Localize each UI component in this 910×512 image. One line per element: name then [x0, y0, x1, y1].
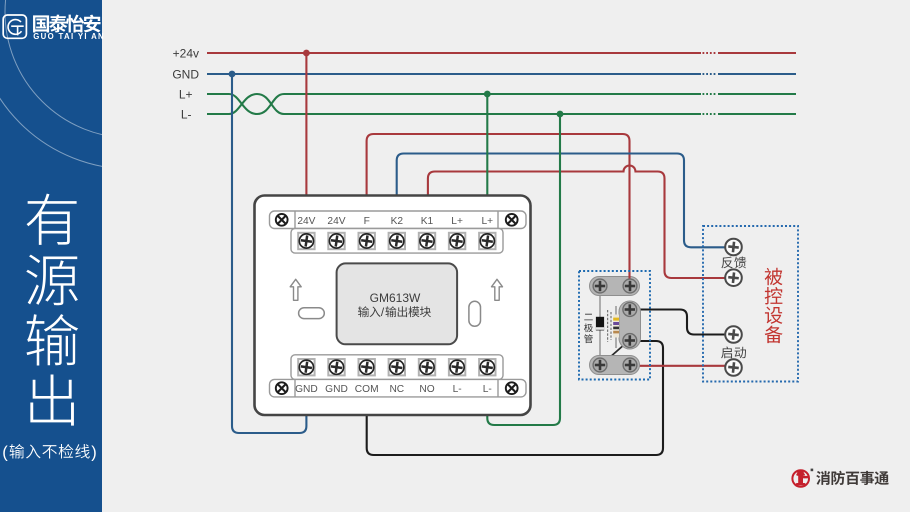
bottom terminal pill [590, 356, 640, 375]
relay screw upper [623, 303, 637, 317]
resistor 4.7K body with bands [613, 315, 619, 338]
wire module K1 terminal to device feedback lower screw (hop over F wire) [428, 166, 725, 279]
svg-text:24V: 24V [297, 216, 315, 227]
svg-text:(: ( [2, 443, 8, 461]
diode box screw top-left [593, 279, 607, 293]
diode component dashed box [579, 271, 650, 380]
right pill cutout [469, 301, 481, 326]
svg-text:GND: GND [325, 384, 348, 395]
label 反馈 [721, 257, 746, 269]
diode body [596, 317, 604, 331]
svg-text:F: F [364, 216, 370, 227]
tiny annotation column (4.7K) [608, 310, 611, 342]
terminal screw 24V (2) [328, 233, 344, 249]
svg-text:GUO TAI YI AN: GUO TAI YI AN [33, 32, 104, 41]
terminal screw L- (bottom 7) [479, 359, 495, 375]
+24v bus line [207, 52, 796, 54]
terminal screw K1 (5) [419, 233, 435, 249]
top-right case screw [506, 214, 518, 226]
wire +24v to module 24V terminal [305, 53, 307, 197]
svg-text:L-: L- [483, 384, 492, 395]
svg-text:GND: GND [295, 384, 318, 395]
label 二极管 [584, 314, 593, 343]
wire L- bus to module L- terminal [487, 114, 560, 425]
svg-text:GND: GND [172, 67, 199, 81]
svg-text:COM: COM [355, 384, 379, 395]
device screw start + [725, 326, 742, 343]
logo text 国泰怡安 [33, 15, 100, 33]
vertical label 被控设备 [765, 268, 783, 343]
wire module F terminal to diode box upper screw [367, 134, 630, 286]
GND bus line [207, 73, 796, 75]
diode box screw top-right [623, 279, 637, 293]
internal link wire (top pill to bottom pill) [599, 288, 601, 363]
terminal screw 24V (1) [298, 233, 314, 249]
terminal screw K2 (4) [389, 233, 405, 249]
svg-text:NC: NC [389, 384, 404, 395]
terminal screw L+ (7) [479, 233, 495, 249]
wire module COM terminal to relay block lower screw [367, 341, 663, 455]
svg-text:L+: L+ [481, 216, 493, 227]
top-left case screw [276, 214, 288, 226]
terminal screw F (3) [359, 233, 375, 249]
svg-text:L-: L- [181, 107, 192, 121]
svg-text:+24v: +24v [173, 46, 199, 60]
terminal screw L- (bottom 6) [449, 359, 465, 375]
internal link wire (relay to bottom pill) [605, 344, 626, 363]
device screw feedback + [725, 239, 742, 256]
blue sidebar panel [0, 0, 102, 512]
bottom-left case screw [276, 382, 288, 394]
bottom-right case screw [506, 382, 518, 394]
wire GND bus to module GND terminal [232, 74, 306, 433]
terminal screw NO (bottom 5) [419, 359, 435, 375]
svg-text:NO: NO [419, 384, 434, 395]
module name 输入/输出模块 [358, 305, 431, 319]
terminal screw GND (bottom 2) [328, 359, 344, 375]
relay screw lower [623, 334, 637, 348]
terminal screw GND (bottom 1) [298, 359, 314, 375]
right orientation arrow [492, 279, 503, 300]
junction dot GND [229, 71, 236, 78]
L+ bus line with twisted pair [207, 94, 796, 114]
diode box screw bottom-right [623, 358, 637, 372]
middle relay pill [619, 301, 641, 349]
svg-text:K2: K2 [391, 216, 404, 227]
L- bus line with twisted pair [207, 94, 796, 114]
terminal screw NC (bottom 4) [389, 359, 405, 375]
diode box screw bottom-left [593, 358, 607, 372]
top terminal pill [590, 277, 640, 296]
wire F over pill segment [628, 276, 630, 286]
device screw start - [725, 359, 742, 376]
svg-text:L-: L- [453, 384, 462, 395]
resistor 4.7K leads [615, 306, 617, 348]
GuoTaiYiAn logo G mark [3, 15, 26, 38]
junction dot L- [557, 111, 564, 118]
svg-text:L+: L+ [451, 216, 463, 227]
bottom screw bar [291, 355, 503, 380]
device screw feedback - [725, 269, 742, 286]
terminal screw L+ (6) [449, 233, 465, 249]
sidebar decorative arcs [0, 0, 288, 169]
sidebar subtitle (输入不检线) [2, 443, 97, 461]
module center plate [337, 263, 458, 344]
terminal screw COM (bottom 3) [359, 359, 375, 375]
svg-text:): ) [91, 443, 97, 461]
svg-text:GM613W: GM613W [370, 291, 421, 305]
svg-text:L+: L+ [179, 87, 193, 101]
left pill cutout [299, 308, 325, 319]
top screw bar [291, 229, 503, 254]
sidebar vertical title 有源输出 [26, 194, 78, 426]
wire L+ bus to module L+ terminal [486, 94, 488, 197]
wire diode box lower screw to device start screw [636, 365, 725, 367]
bottom terminal label bar [270, 379, 527, 397]
logo text 消防百事通 [816, 471, 889, 485]
left orientation arrow [290, 279, 301, 300]
controlled device dashed box [703, 226, 798, 382]
fire-service logo emblem [792, 469, 813, 487]
svg-text:24V: 24V [327, 216, 345, 227]
top terminal label bar [270, 211, 527, 229]
junction dot L+ [484, 91, 491, 98]
label 启动 [721, 347, 746, 359]
junction dot +24v [303, 50, 310, 57]
svg-text:K1: K1 [421, 216, 434, 227]
wire relay block upper screw to device start upper screw [637, 310, 725, 335]
module GM613W outer case [255, 196, 531, 416]
wire module K2 terminal to device feedback upper screw [397, 154, 725, 248]
